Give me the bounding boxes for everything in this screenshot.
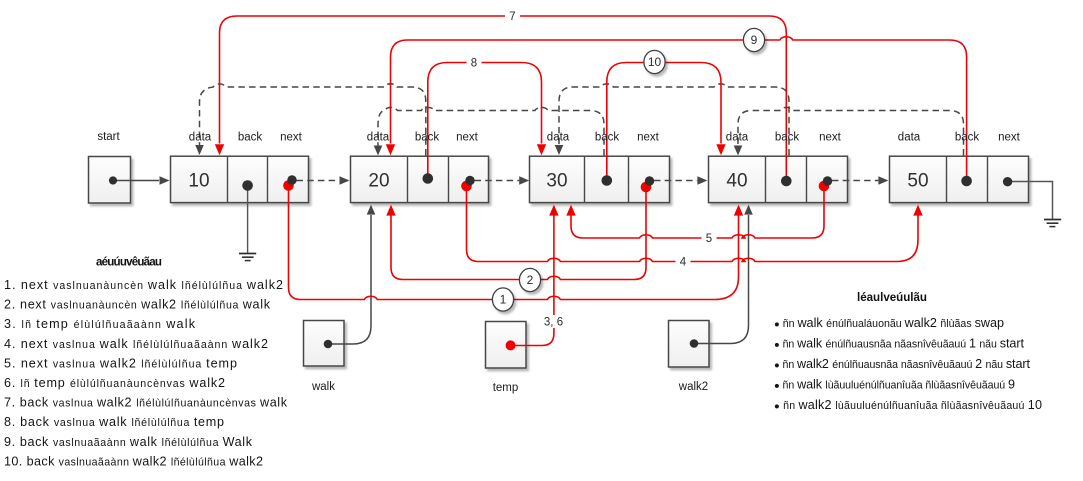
svg-text:aéuúuvêuãau: aéuúuvêuãau: [96, 256, 162, 269]
temp box: [486, 322, 527, 369]
svg-text:● ñn walk lùãuuluénúlñuanîuãa: ● ñn walk lùãuuluénúlñuanîuãa ñlùãasnîvê…: [774, 378, 1015, 392]
walk2 pointer wire: [698, 215, 749, 344]
circle badge 10: [644, 50, 665, 73]
node 40 next red dot: [819, 181, 830, 192]
node 40 next dot: [823, 176, 832, 185]
red temp pointer wire: [516, 216, 554, 346]
node 20 box: [351, 156, 489, 202]
svg-text:1: 1: [500, 293, 507, 307]
label 3,6 on temp wire: [540, 315, 567, 328]
red line 7: node40.back -> node10.data: [220, 16, 787, 181]
walk box: [304, 321, 345, 367]
ground under node 10: [239, 254, 256, 261]
svg-text:4: 4: [680, 257, 687, 269]
svg-text:next: next: [637, 132, 660, 144]
node 10 box: [171, 156, 309, 202]
svg-text:walk2: walk2: [678, 381, 708, 393]
node 20 next dot: [465, 176, 474, 185]
next link node40 to node50 (dashed): [832, 180, 878, 182]
svg-text:next: next: [456, 132, 479, 144]
next link node20 to node30 (dashed): [475, 180, 520, 182]
red line 5: node40.next -> node30 bottom: [571, 186, 824, 238]
svg-text:● ñn walk2 lùãuuluénúlñuanîuãa: ● ñn walk2 lùãuuluénúlñuanîuãa ñlùãasnîv…: [774, 398, 1042, 412]
label 5 on line 5: [702, 232, 717, 245]
back arc node50->node40 (dashed): [738, 107, 964, 155]
label 8 on line 8: [467, 56, 482, 69]
svg-text:1. next vaslnuanàuncèn walk lñ: 1. next vaslnuanàuncèn walk lñélùlúlñua …: [4, 278, 283, 292]
svg-text:data: data: [726, 132, 749, 144]
start pointer wire: [117, 180, 159, 182]
red line 2: node30.next -> node20 bottom: [391, 187, 646, 280]
walk2 box dot: [690, 339, 699, 348]
svg-text:léaulveúulãu: léaulveúulãu: [857, 291, 927, 304]
svg-text:data: data: [367, 132, 390, 144]
svg-text:50: 50: [907, 171, 928, 192]
svg-text:8. back vaslnua walk lñélùlúlñ: 8. back vaslnua walk lñélùlúlñua temp: [4, 415, 224, 429]
svg-text:7: 7: [509, 11, 515, 23]
svg-text:3, 6: 3, 6: [544, 317, 563, 329]
node 10 back dot: [242, 180, 253, 191]
svg-text:2: 2: [527, 273, 534, 287]
node 20 back dot: [423, 173, 434, 184]
svg-text:back: back: [775, 132, 800, 144]
svg-text:10: 10: [648, 55, 662, 69]
next link node30 to node40 (dashed): [654, 180, 697, 182]
node 10 back null wire: [247, 183, 249, 253]
red line 8: node20.back -> node30.data: [428, 63, 542, 179]
node 30 next dot: [645, 176, 654, 185]
svg-text:4. next vaslnua walk lñélùlúlñ: 4. next vaslnua walk lñélùlúlñuaãaànn wa…: [4, 337, 268, 351]
node 30 next red dot: [641, 182, 652, 193]
node 30 box: [530, 156, 670, 202]
svg-text:5: 5: [706, 233, 712, 245]
svg-text:next: next: [280, 132, 303, 144]
svg-text:10: 10: [188, 171, 209, 192]
label 7 on line 7: [505, 10, 520, 23]
svg-text:40: 40: [726, 171, 747, 192]
svg-text:8: 8: [471, 58, 477, 70]
svg-text:back: back: [955, 132, 980, 144]
node 40 box: [709, 156, 848, 202]
node 50 box: [890, 156, 1029, 202]
svg-text:20: 20: [368, 171, 389, 192]
back arc node40->node30 (dashed): [559, 84, 789, 156]
walk box dot: [324, 340, 333, 349]
start box dot: [109, 176, 117, 184]
walk2 box: [669, 321, 710, 368]
svg-text:3. lñ temp élùlúlñuaãaànn walk: 3. lñ temp élùlúlñuaãaànn walk: [4, 317, 196, 331]
node 50 next null wire: [1012, 182, 1053, 219]
svg-text:7. back vaslnua walk2 lñélùlúl: 7. back vaslnua walk2 lñélùlúlñuanàuncèn…: [4, 396, 288, 410]
svg-text:next: next: [998, 132, 1021, 144]
red line 4: node20.next -> node50 bottom: [467, 186, 919, 262]
svg-text:next: next: [819, 132, 842, 144]
svg-text:30: 30: [546, 171, 567, 192]
label 4 on line 4: [676, 255, 691, 268]
ground right of node 50: [1044, 220, 1061, 227]
back arc node20->node10 (dashed): [200, 84, 426, 156]
svg-text:start: start: [97, 131, 120, 143]
red line 10: node30.back -> node40.data: [607, 63, 721, 179]
svg-text:9: 9: [751, 33, 758, 47]
svg-text:5. next vaslnua walk2 lñélùlúl: 5. next vaslnua walk2 lñélùlúlñua temp: [4, 356, 237, 370]
svg-text:back: back: [238, 132, 263, 144]
svg-text:6. lñ temp élùlúlñuanàuncènvas: 6. lñ temp élùlúlñuanàuncènvas walk2: [4, 376, 225, 390]
node 50 back dot: [961, 176, 972, 187]
red line 9: node50.back -> node20.data: [391, 37, 967, 181]
start box: [89, 157, 131, 204]
node 40 back dot: [781, 176, 792, 187]
svg-text:10. back vaslnuaãaànn walk2 lñ: 10. back vaslnuaãaànn walk2 lñélùlúlñua …: [4, 454, 263, 468]
svg-text:temp: temp: [493, 382, 519, 394]
next link node10 to node20 (dashed): [297, 180, 340, 182]
svg-text:9. back vaslnuaãaànn walk lñél: 9. back vaslnuaãaànn walk lñélùlúlñua Wa…: [4, 435, 253, 449]
svg-text:data: data: [189, 132, 212, 144]
node 10 next red dot: [283, 180, 294, 191]
svg-text:data: data: [547, 132, 570, 144]
svg-text:2. next vaslnuanàuncèn walk2 l: 2. next vaslnuanàuncèn walk2 lñélùlúlñua…: [4, 298, 271, 312]
svg-text:back: back: [595, 132, 620, 144]
temp box dot (red): [506, 340, 516, 350]
svg-text:● ñn walk énúlñuausnãa nãasnîv: ● ñn walk énúlñuausnãa nãasnîvêuãauú 1 n…: [774, 337, 1025, 351]
circle badge 2: [519, 268, 540, 291]
circle badge 1: [492, 288, 513, 311]
node 20 next red dot: [461, 181, 472, 192]
node 50 next dot: [1003, 177, 1012, 186]
back arc node30->node20 (dashed): [378, 107, 604, 155]
svg-text:data: data: [898, 132, 921, 144]
node 10 next dot: [287, 175, 296, 184]
red line 1: node10.next -> node40 bottom: [289, 186, 739, 300]
svg-text:back: back: [415, 132, 440, 144]
svg-text:● ñn walk énúlñualáuonãu walk2: ● ñn walk énúlñualáuonãu walk2 ñlùãas sw…: [774, 316, 1004, 330]
circle badge 9: [743, 28, 764, 51]
node 30 back dot: [602, 175, 613, 186]
svg-text:● ñn walk2 énúlñuausnãa nãasnî: ● ñn walk2 énúlñuausnãa nãasnîvêuãauú 2 …: [774, 357, 1031, 371]
svg-text:walk: walk: [311, 381, 335, 393]
walk pointer wire: [332, 215, 371, 344]
